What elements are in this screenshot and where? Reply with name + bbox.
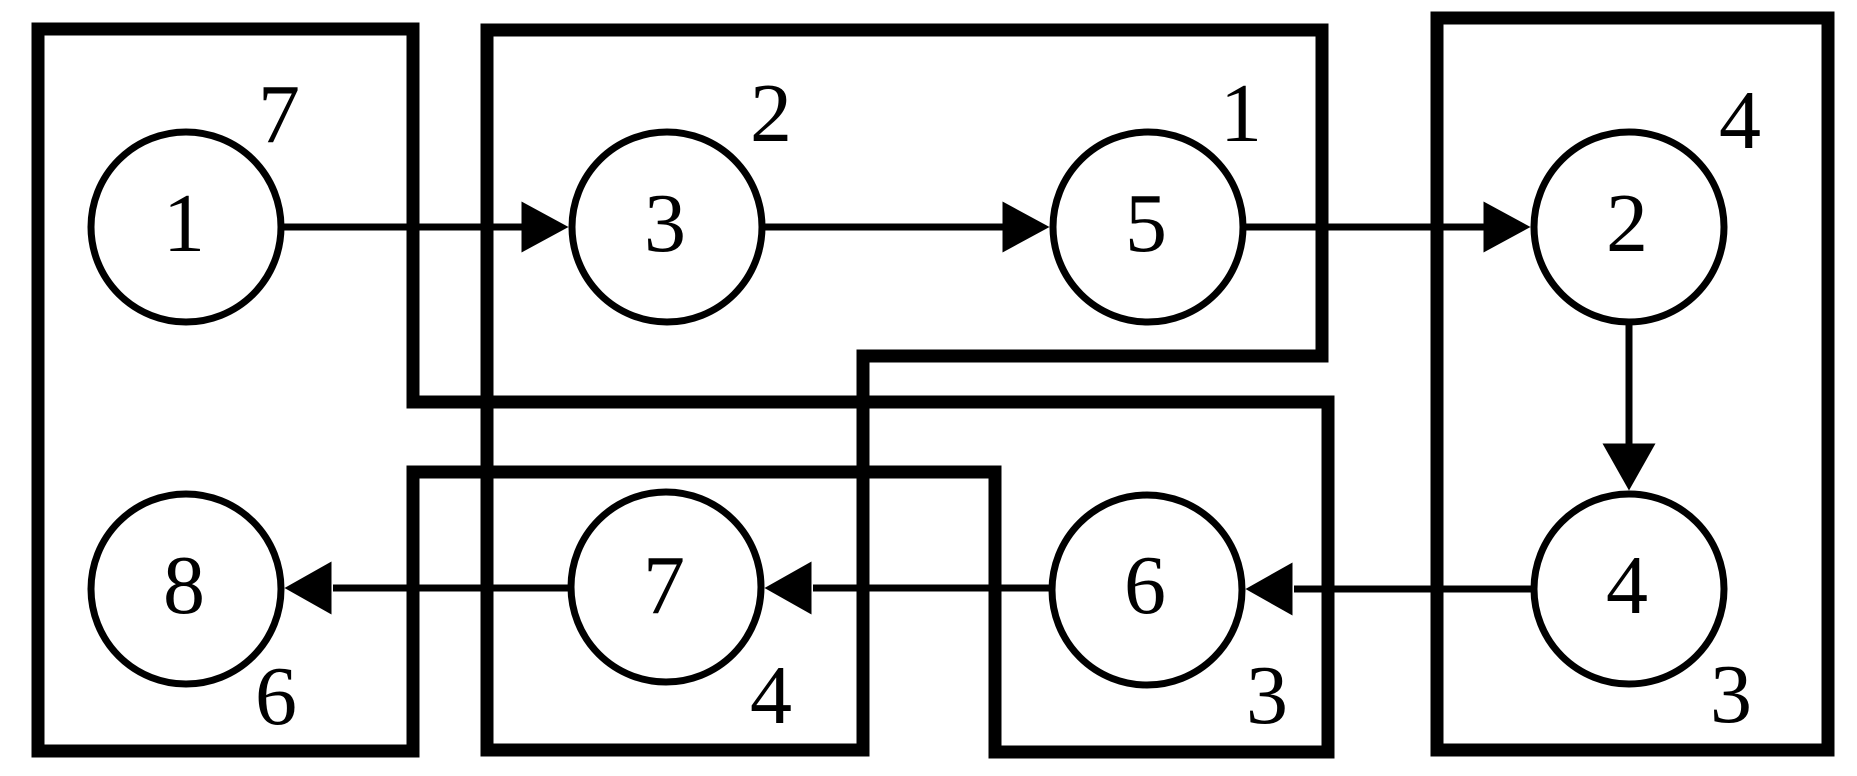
svg-text:1: 1 [163,177,205,270]
svg-text:6: 6 [1124,539,1166,632]
svg-text:8: 8 [163,539,205,632]
svg-text:3: 3 [644,177,686,270]
svg-text:7: 7 [643,539,685,632]
svg-text:3: 3 [1710,648,1752,741]
svg-text:6: 6 [255,650,297,743]
svg-text:7: 7 [258,68,300,161]
svg-text:4: 4 [1719,74,1761,167]
svg-text:3: 3 [1246,649,1288,742]
svg-text:5: 5 [1125,177,1167,270]
svg-text:1: 1 [1220,67,1262,160]
svg-text:2: 2 [750,67,792,160]
svg-text:2: 2 [1606,177,1648,270]
svg-text:4: 4 [1606,539,1648,632]
svg-text:4: 4 [750,649,792,742]
